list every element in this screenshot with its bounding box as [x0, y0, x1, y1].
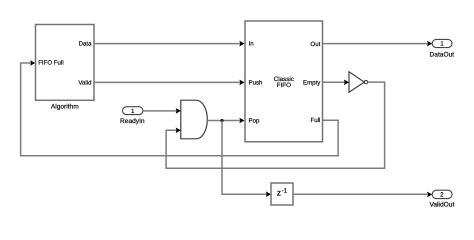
- block Algorithm: [36, 25, 95, 101]
- svg-text:FIFO: FIFO: [277, 82, 291, 89]
- NOT gate: [349, 72, 368, 93]
- block Classic FIFO: [245, 21, 323, 142]
- wire Data to In: [94, 41, 245, 47]
- wire Valid to Push: [94, 80, 245, 86]
- wire Empty to NOT input: [323, 80, 349, 86]
- wire AND output to Pop: [207, 118, 244, 124]
- svg-text:Valid: Valid: [78, 80, 91, 87]
- svg-text:Algorithm: Algorithm: [51, 104, 79, 111]
- outport DataOut: [432, 39, 452, 47]
- outport ValidOut: [432, 190, 452, 199]
- wire z^-1 output to ValidOut: [293, 192, 432, 198]
- svg-text:Push: Push: [249, 79, 263, 86]
- svg-text:Full: Full: [310, 117, 320, 124]
- wire NOT output feedback to AND bottom input: [166, 82, 385, 168]
- svg-text:z: z: [277, 188, 281, 198]
- svg-text:DataOut: DataOut: [430, 51, 455, 58]
- svg-text:In: In: [249, 41, 254, 48]
- svg-text:ValidOut: ValidOut: [429, 202, 454, 209]
- inport ReadyIn: [123, 107, 143, 115]
- svg-text:Out: Out: [310, 41, 320, 48]
- AND gate: [181, 100, 208, 139]
- svg-text:-1: -1: [282, 188, 288, 195]
- block z^-1 delay: [271, 183, 293, 205]
- svg-text:ReadyIn: ReadyIn: [120, 118, 145, 125]
- wire junction down to z^-1 input: [222, 121, 271, 198]
- junction dot on Pop wire: [220, 119, 223, 122]
- svg-text:Data: Data: [79, 40, 92, 47]
- svg-text:Pop: Pop: [249, 118, 260, 125]
- wire Out to DataOut: [323, 41, 432, 47]
- wire ReadyIn to AND top input: [143, 108, 181, 114]
- svg-text:FIFO Full: FIFO Full: [38, 60, 63, 67]
- svg-text:Empty: Empty: [303, 79, 321, 86]
- wire Full feedback to Algorithm FIFO Full input: [21, 60, 339, 156]
- svg-text:1: 1: [131, 108, 135, 115]
